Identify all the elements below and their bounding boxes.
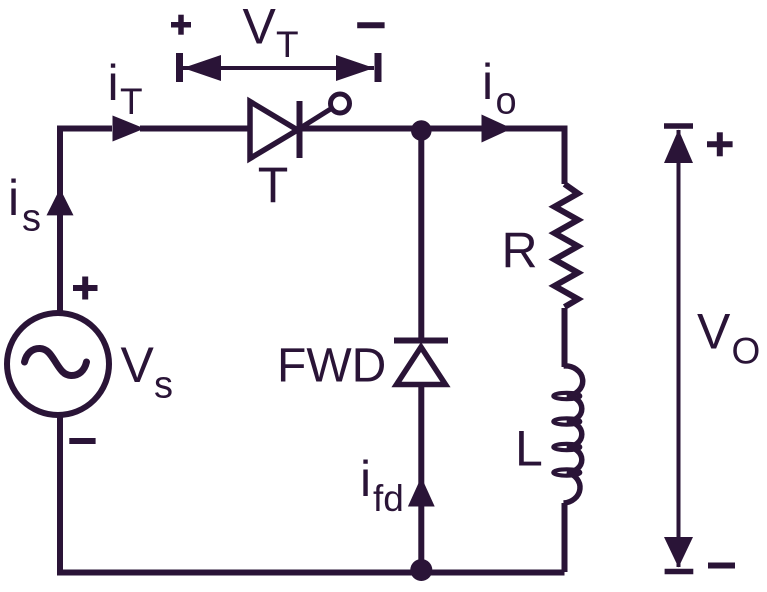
resistor R xyxy=(555,184,579,307)
inductor L xyxy=(553,366,582,503)
node A junction dot xyxy=(411,120,432,141)
wire bottom horizontal xyxy=(57,570,565,576)
wire top from i_T arrow to thyristor anode xyxy=(140,126,249,132)
thyristor T xyxy=(250,94,350,159)
svg-text:V: V xyxy=(121,337,155,393)
svg-text:T: T xyxy=(258,157,289,213)
svg-text:i: i xyxy=(108,55,119,111)
svg-text:V: V xyxy=(243,0,277,55)
minus sign (V_O) xyxy=(708,563,735,569)
plus sign (V_O) xyxy=(707,132,733,156)
V_O measurement arrow xyxy=(664,126,693,572)
svg-text:V: V xyxy=(697,304,731,360)
wire middle branch node A down to FWD cathode xyxy=(418,129,424,341)
wire middle branch FWD anode down to node B xyxy=(418,385,424,573)
node B junction dot xyxy=(410,559,432,581)
svg-text:FWD: FWD xyxy=(277,340,386,393)
wire top from node A to top-right corner xyxy=(421,129,565,185)
svg-text:s: s xyxy=(154,365,173,407)
wire top from thyristor cathode to node A xyxy=(299,126,421,132)
current arrow i_o xyxy=(482,115,513,143)
voltage source Vs xyxy=(7,313,109,415)
wire right below inductor to bottom wire xyxy=(562,503,568,572)
wire right between resistor and inductor xyxy=(562,308,568,367)
svg-text:T: T xyxy=(276,24,299,65)
diode FWD xyxy=(394,341,448,385)
wire left vertical upper (source top lead) xyxy=(60,129,112,314)
current arrow i_fd xyxy=(408,477,435,507)
svg-text:i: i xyxy=(8,170,19,226)
svg-text:R: R xyxy=(502,223,538,279)
current arrow i_T xyxy=(113,116,145,142)
plus sign (V_T) xyxy=(171,15,191,35)
V_T measurement arrow xyxy=(180,53,379,82)
svg-text:o: o xyxy=(496,81,517,123)
plus sign (source) xyxy=(73,277,98,300)
svg-text:fd: fd xyxy=(373,478,404,519)
wire left vertical lower (source bottom lead) xyxy=(57,415,63,572)
svg-text:T: T xyxy=(120,81,143,122)
current arrow i_s xyxy=(47,189,74,216)
svg-text:O: O xyxy=(732,331,761,372)
minus sign (source) xyxy=(69,438,95,444)
minus sign (V_T) xyxy=(357,22,384,28)
svg-text:s: s xyxy=(22,197,41,239)
svg-text:i: i xyxy=(360,451,371,507)
svg-text:L: L xyxy=(515,421,543,477)
svg-text:i: i xyxy=(482,54,493,110)
